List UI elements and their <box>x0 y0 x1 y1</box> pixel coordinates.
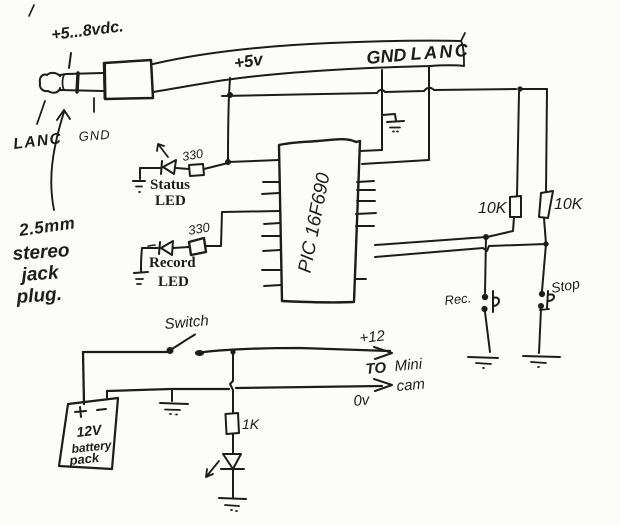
wire: +5v tap from cable <box>229 78 230 95</box>
wire: chip pin to node A <box>375 237 486 245</box>
status LED D1 <box>161 160 176 174</box>
svg-text:1K: 1K <box>242 416 260 432</box>
svg-text:Switch: Switch <box>164 312 210 333</box>
arrowhead 0V <box>374 379 392 391</box>
battery + lead <box>83 352 84 404</box>
svg-text:+5v: +5v <box>233 49 266 73</box>
label Record LED <box>149 255 196 290</box>
wire: record LED to resistor <box>173 247 189 248</box>
resistor 330 (record) <box>189 238 206 255</box>
leader LANC to tip <box>37 101 45 124</box>
wire: Stop to ground <box>539 309 541 353</box>
power LED D3 <box>221 454 244 469</box>
junction dot node A <box>483 234 489 240</box>
note 2.5mm stereo jack plug <box>12 213 76 308</box>
chip right pin stubs <box>355 181 376 279</box>
wire: right 10K bottom lead <box>544 218 546 244</box>
svg-text:LED: LED <box>155 193 186 209</box>
wire: 1K to LED <box>232 434 234 453</box>
svg-text:+12: +12 <box>359 327 387 347</box>
2.5mm stereo jack plug: tip <box>40 73 64 93</box>
ground symbol on 0V rail <box>160 403 188 415</box>
junction dot node B <box>543 241 548 246</box>
wire: LANC drop from cable <box>428 66 430 160</box>
svg-text:10K: 10K <box>554 196 584 213</box>
wire: right 10K top lead <box>546 89 547 192</box>
svg-text:stereo: stereo <box>12 240 70 265</box>
svg-text:Record: Record <box>149 255 196 271</box>
svg-text:GND: GND <box>78 127 111 144</box>
wire: left 10K bottom lead <box>487 217 514 237</box>
wire: resistor to +5v node <box>204 163 228 169</box>
wire: +12 tap down to 1K with hop over 0V rail <box>230 352 233 413</box>
svg-text:LED: LED <box>158 274 189 290</box>
svg-text:TO: TO <box>365 359 387 378</box>
wire: status LED to resistor <box>176 168 189 169</box>
wire: node B down to Stop switch <box>542 244 546 291</box>
svg-text:jack: jack <box>18 262 61 286</box>
wire: battery - to 0V rail and right to arrow <box>107 386 382 391</box>
ground symbol under Stop <box>523 356 560 367</box>
record LED D2 <box>159 241 173 255</box>
leader GND to sleeve <box>93 98 95 112</box>
wire: LED to ground <box>232 470 234 497</box>
battery - mark <box>97 409 106 410</box>
svg-text:12V: 12V <box>76 421 104 440</box>
resistor 10K right <box>539 191 553 218</box>
svg-text:+5...8vdc.: +5...8vdc. <box>50 18 124 44</box>
pushbutton Rec contacts <box>481 291 499 312</box>
svg-text:Mini: Mini <box>394 356 424 375</box>
wire: Rec to ground <box>485 312 490 352</box>
ground symbol bottom <box>219 498 246 511</box>
chip left pin stubs <box>262 182 281 286</box>
svg-text:pack: pack <box>68 450 101 468</box>
wire: left 10K top lead <box>517 92 519 196</box>
wire: record resistor up to chip pin <box>206 211 279 246</box>
junction dot at left 10K top <box>517 86 522 91</box>
wire: battery + to switch <box>83 351 167 353</box>
curved arrow from jack note to plug <box>51 110 70 210</box>
ground symbol (GND net) <box>387 121 404 132</box>
label Status LED <box>150 177 190 209</box>
svg-text:GND: GND <box>366 45 408 68</box>
svg-text:Stop: Stop <box>550 275 581 296</box>
battery text 12V battery pack <box>68 421 114 468</box>
wire: GND branch to ground symbol <box>382 114 396 121</box>
battery - lead <box>106 391 108 398</box>
emission arrow power LED <box>206 461 219 477</box>
cable outline bottom line <box>153 65 464 92</box>
status LED ground symbol <box>133 168 145 192</box>
cable outline top line <box>153 41 461 64</box>
resistor 10K left <box>510 196 521 217</box>
wire: ground to status LED <box>140 167 161 169</box>
arrowhead +12 <box>374 347 392 359</box>
cable end hook <box>461 33 465 66</box>
resistor 330 (status) <box>189 164 204 176</box>
junction dot at 1K tap <box>230 349 235 354</box>
svg-text:330: 330 <box>181 147 204 164</box>
wire: node A down to Rec switch <box>485 237 486 293</box>
pushbutton Stop contacts <box>538 291 554 310</box>
ground symbol under Rec <box>468 357 498 368</box>
switch left contact dot <box>167 347 174 354</box>
label +5...8vdc <box>50 18 124 44</box>
emission arrow for status LED <box>157 144 168 157</box>
label TO Mini <box>353 356 426 410</box>
junction dot status node <box>225 159 231 165</box>
switch right contact dot <box>195 350 204 356</box>
wire: ground to record LED <box>142 247 158 249</box>
wire: ground stub on 0V rail <box>171 389 173 401</box>
battery + mark <box>75 407 86 417</box>
wire: switch to +12 arrow <box>204 348 390 352</box>
wire: chip pin to node B with kink <box>375 244 546 257</box>
jack plug: body <box>104 60 153 99</box>
resistor 1K <box>226 413 240 434</box>
svg-text:2.5mm: 2.5mm <box>17 213 76 240</box>
wire: +5v node to chip left pin <box>228 160 279 162</box>
wire: +5v vertical down to status node <box>228 95 229 162</box>
battery BT1 body <box>59 398 118 469</box>
leader tick from +5..8vdc to plug ring <box>69 53 71 68</box>
wire: GND drop from cable <box>381 70 383 150</box>
wire: GND into chip pin <box>360 150 382 151</box>
wire: +5v horizontal rail with hops over GND and LANC <box>222 88 516 96</box>
svg-text:10K: 10K <box>478 200 508 217</box>
switch blade <box>172 335 195 350</box>
record LED ground symbol <box>134 248 148 284</box>
junction dot +5v top <box>227 92 233 98</box>
wire: +5v rail end to right 10K <box>520 88 547 90</box>
svg-text:plug.: plug. <box>15 284 63 308</box>
svg-text:LANC: LANC <box>410 40 471 64</box>
svg-text:cam: cam <box>396 376 426 395</box>
svg-text:Rec.: Rec. <box>444 290 472 308</box>
stray dash left of record ground <box>148 245 155 246</box>
svg-text:Status: Status <box>150 177 190 193</box>
svg-text:330: 330 <box>187 219 212 238</box>
stray mark top-left <box>29 5 34 16</box>
wire: LANC into chip pin <box>362 160 429 164</box>
svg-text:0v: 0v <box>353 391 372 410</box>
jack plug: ring section <box>60 73 103 92</box>
op-amp/mcu chip U1 PIC16F690 body <box>279 139 360 302</box>
